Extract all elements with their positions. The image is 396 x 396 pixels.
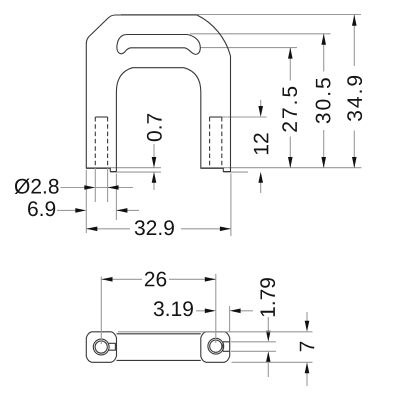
extension line right boss edge (3.19) [229, 306, 231, 332]
right boss [201, 332, 230, 363]
left hole inner circle [95, 341, 107, 353]
outer contour of bracket [86, 15, 230, 172]
extension line slot-bottom (27.5) [200, 47, 297, 49]
dimension 34.9 [347, 15, 362, 168]
dimension 26 [102, 272, 216, 287]
dimension 27.5 [282, 48, 297, 168]
right hole outer circle [208, 338, 224, 354]
dimension 1.79 [260, 278, 275, 377]
dimension 6.9 [28, 201, 139, 216]
extension lines 7 [118, 331, 313, 333]
extension line slot-top (30.5) [190, 33, 331, 35]
hidden hole left leg (dashed) [95, 116, 107, 118]
left boss [86, 332, 116, 363]
extension lines 1.79 [231, 341, 276, 343]
hidden hole right leg (dashed) [210, 116, 222, 118]
dimension 12 [254, 100, 269, 193]
right hole inner circle [210, 340, 222, 352]
dimension 3.19 [154, 301, 253, 316]
dimension 30.5 [316, 34, 331, 168]
extension line hole-top (12) [222, 116, 267, 118]
extension line bottom step [223, 171, 248, 173]
dimension 0.7 [147, 114, 162, 190]
left notch [109, 343, 116, 350]
extension lines 0.7 between legs [86, 167, 161, 169]
extension line bottom main [201, 167, 362, 169]
dimension Ø2.8 [15, 179, 133, 195]
top slot cutout [117, 35, 200, 55]
plate middle section [117, 333, 201, 335]
extension line right hole center [215, 274, 217, 343]
right notch [223, 342, 230, 352]
dimension 7 [300, 312, 314, 386]
extension lines left dims [85, 170, 87, 233]
extension line top (34.9) [121, 14, 361, 16]
dimension 32.9 [86, 220, 231, 235]
extension line left hole center [100, 277, 102, 345]
left hole outer circle [93, 339, 109, 355]
